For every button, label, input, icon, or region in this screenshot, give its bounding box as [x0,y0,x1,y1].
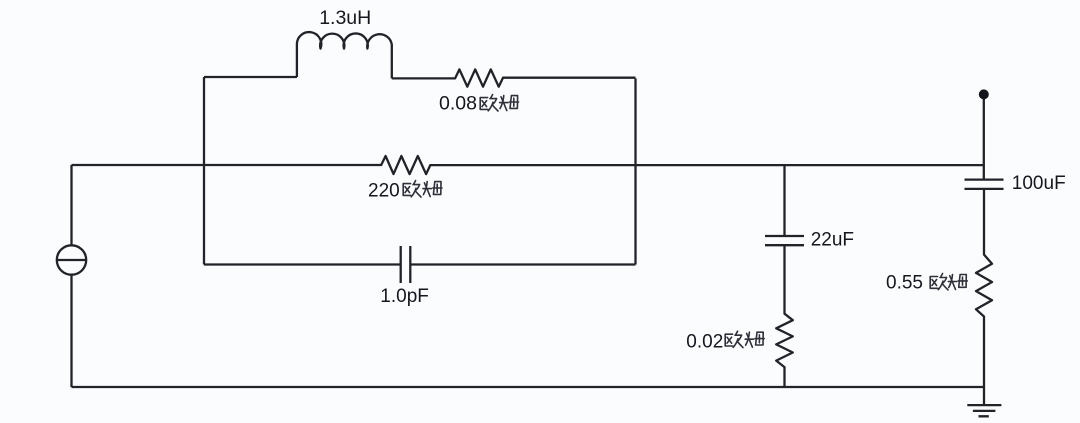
svg-text:0.02: 0.02 [686,332,723,353]
svg-text:0.08: 0.08 [439,93,477,115]
svg-text:220: 220 [368,181,400,202]
svg-text:0.55: 0.55 [886,273,923,294]
svg-text:1.3uH: 1.3uH [319,7,371,29]
svg-text:1.0pF: 1.0pF [380,286,429,307]
svg-text:22uF: 22uF [811,229,854,250]
svg-text:100uF: 100uF [1012,173,1066,194]
